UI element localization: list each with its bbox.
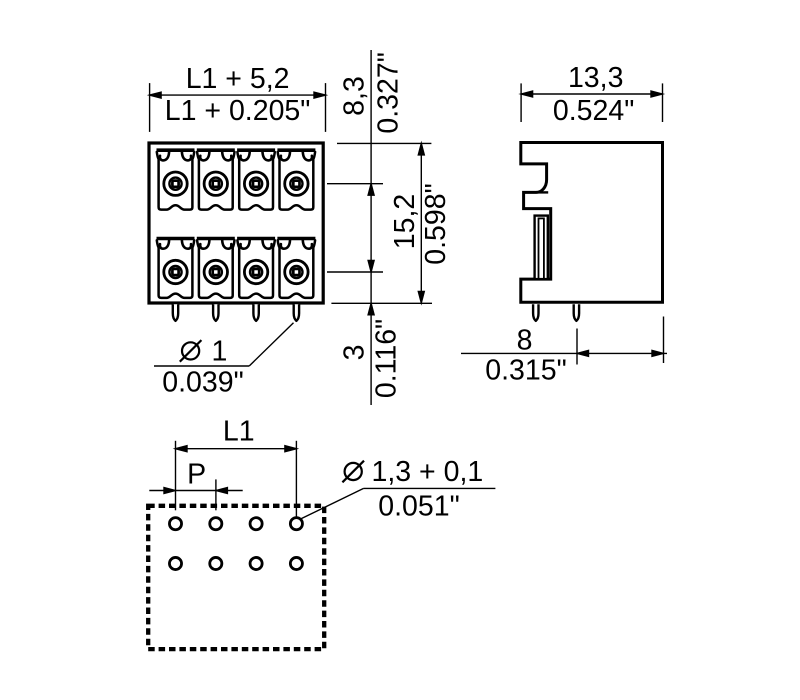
side view internal step edge (536, 191, 548, 193)
contact cell row2 col4 (277, 239, 315, 298)
drill hole row1 col2 (210, 518, 222, 530)
svg-text:0.051": 0.051" (378, 491, 459, 523)
dimension L1 (hole span) (176, 441, 297, 520)
svg-text:1: 1 (212, 336, 228, 368)
svg-text:1,3 + 0,1: 1,3 + 0,1 (372, 456, 484, 488)
svg-text:0.116": 0.116" (371, 319, 403, 398)
dimension 15,2 / 0.598" (housing height) (331, 143, 432, 303)
front view housing outline (149, 143, 323, 303)
dimension L1 + 5,2 / L1 + 0.205" (front width) (150, 83, 326, 132)
solder pin 4 (front view) (294, 304, 299, 321)
svg-text:L1: L1 (223, 416, 255, 448)
contact cell row2 col1 (157, 239, 195, 298)
solder pin 2 (side view) (574, 304, 579, 321)
svg-text:L1 + 5,2: L1 + 5,2 (186, 63, 290, 95)
side view contact slot outer (535, 216, 548, 280)
contact cell row1 col1 (157, 150, 195, 209)
dimension 13,3 / 0.524" (side width) (521, 83, 662, 122)
drill hole row1 col3 (250, 518, 262, 530)
contact cell row2 col2 (197, 239, 235, 298)
side view housing outline (521, 143, 663, 303)
solder pin 3 (front view) (253, 304, 258, 321)
leader Ø 1,3 + 0,1 / 0.051" (hole diameter) (301, 488, 495, 518)
svg-text:0.327": 0.327" (373, 52, 405, 133)
svg-text:P: P (187, 459, 206, 491)
contact cell row1 col3 (237, 150, 275, 209)
contact cell row1 col2 (197, 150, 235, 209)
dimension P (hole pitch) (149, 479, 242, 510)
drill hole row1 col1 (169, 518, 181, 530)
drill hole row2 col4 (290, 557, 302, 569)
svg-text:13,3: 13,3 (568, 62, 623, 94)
leader Ø 1 / 0.039" (pin diameter) (154, 323, 294, 366)
solder pin 1 (front view) (173, 304, 178, 321)
svg-text:0.315": 0.315" (485, 355, 566, 387)
solder pin 2 (front view) (213, 304, 218, 321)
svg-text:0.598": 0.598" (420, 183, 452, 264)
svg-text:3: 3 (339, 345, 371, 361)
side view contact pin inner (539, 218, 544, 279)
solder pin 1 (side view) (533, 304, 538, 321)
drill hole row1 col4 (290, 518, 302, 530)
svg-text:8,3: 8,3 (339, 76, 371, 116)
dimension 8,3 / 0.327" (row spacing) (327, 50, 383, 405)
drilling plan dashed board outline (148, 506, 324, 649)
drill hole row2 col3 (250, 557, 262, 569)
drill hole row2 col1 (169, 557, 181, 569)
svg-text:0.524": 0.524" (553, 95, 634, 127)
svg-text:0.039": 0.039" (162, 367, 243, 399)
contact cell row1 col4 (277, 150, 315, 209)
drill hole row2 col2 (210, 557, 222, 569)
contact cell row2 col3 (237, 239, 275, 298)
svg-text:15,2: 15,2 (389, 194, 421, 249)
dimension 8 / 0.315" (pin to face) (461, 317, 667, 365)
svg-text:L1 + 0.205": L1 + 0.205" (165, 95, 311, 127)
svg-text:8: 8 (517, 325, 533, 357)
